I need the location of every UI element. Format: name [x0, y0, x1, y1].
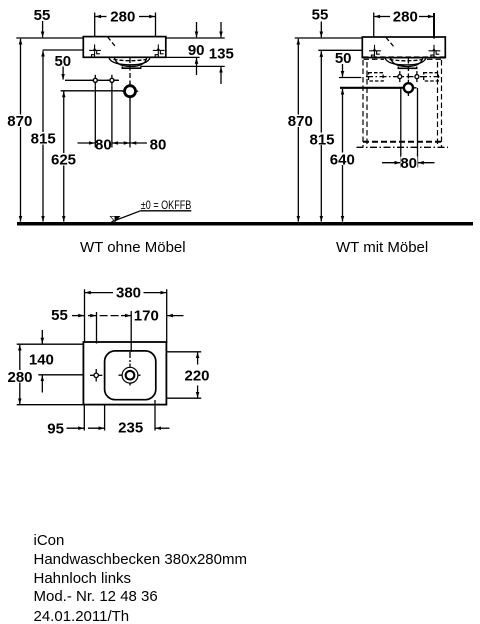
- svg-text:80: 80: [150, 137, 167, 154]
- svg-text:80: 80: [95, 137, 112, 154]
- svg-text:280: 280: [393, 9, 418, 26]
- svg-text:280: 280: [110, 9, 135, 26]
- svg-text:640: 640: [330, 152, 355, 169]
- svg-text:870: 870: [288, 113, 313, 130]
- svg-text:280: 280: [7, 369, 32, 386]
- svg-text:Hahnloch links: Hahnloch links: [34, 570, 132, 587]
- svg-text:50: 50: [54, 53, 71, 70]
- svg-text:50: 50: [335, 50, 352, 67]
- svg-text:90: 90: [188, 42, 205, 59]
- svg-text:55: 55: [51, 307, 68, 324]
- svg-text:380: 380: [116, 284, 141, 301]
- svg-text:55: 55: [312, 6, 329, 23]
- svg-text:870: 870: [7, 113, 32, 130]
- svg-text:±0 = OKFFB: ±0 = OKFFB: [141, 198, 192, 212]
- svg-text:135: 135: [209, 46, 234, 63]
- svg-text:815: 815: [31, 131, 56, 148]
- svg-text:Handwaschbecken 380x280mm: Handwaschbecken 380x280mm: [34, 551, 247, 568]
- svg-text:235: 235: [118, 419, 143, 436]
- svg-text:220: 220: [184, 368, 209, 385]
- svg-text:24.01.2011/Th: 24.01.2011/Th: [34, 608, 130, 624]
- svg-text:WT ohne Möbel: WT ohne Möbel: [80, 239, 186, 256]
- svg-text:iCon: iCon: [34, 532, 65, 549]
- svg-text:170: 170: [134, 307, 159, 324]
- svg-text:80: 80: [400, 155, 417, 172]
- svg-text:140: 140: [29, 352, 54, 369]
- svg-text:625: 625: [51, 152, 76, 169]
- svg-text:815: 815: [309, 131, 334, 148]
- svg-text:Mod.- Nr. 12 48 36: Mod.- Nr. 12 48 36: [34, 588, 158, 605]
- svg-text:WT mit Möbel: WT mit Möbel: [336, 239, 428, 256]
- svg-text:95: 95: [47, 420, 64, 437]
- svg-text:55: 55: [34, 7, 51, 24]
